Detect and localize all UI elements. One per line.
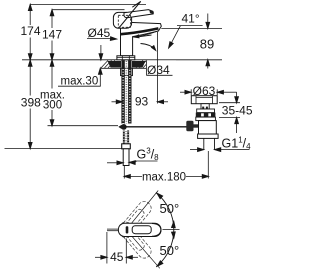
dim 398 line [29, 60, 31, 96]
cartridge dashed square [118, 15, 130, 27]
svg-text:89: 89 [200, 37, 214, 52]
max180 extension right [207, 151, 209, 179]
deck reference long line [22, 59, 222, 61]
svg-text:174: 174 [20, 24, 40, 38]
drain flange [191, 96, 217, 104]
flow arc under spout [141, 44, 155, 50]
lever tip dark [149, 10, 153, 14]
svg-text:50°: 50° [160, 201, 180, 216]
shank nut below deck [121, 68, 133, 75]
arrows at deck line [28, 54, 32, 60]
dim 147 line [51, 10, 53, 28]
handle centerline [163, 228, 180, 230]
O63 dim [180, 91, 186, 93]
tailpiece nut [198, 134, 219, 138]
spout outlet extension line [161, 27, 222, 29]
svg-text:50°: 50° [160, 243, 180, 258]
threaded shank dark columns [121, 60, 124, 123]
drain clevis knob [186, 121, 193, 132]
diagonal centerlines [124, 191, 158, 233]
handle detail stub [107, 228, 119, 230]
dim 174 line [29, 5, 31, 26]
deck seal dark left [108, 61, 122, 68]
G3/8 underline [134, 160, 157, 162]
swing arc [156, 193, 174, 267]
G3/8 arrows [107, 162, 119, 164]
O45 underline and arrow [87, 38, 113, 40]
svg-text:93: 93 [135, 95, 149, 109]
dim 93 [112, 101, 119, 103]
max30 label arrows [100, 45, 102, 56]
drain washer [196, 117, 216, 121]
tailpiece upper [199, 121, 217, 134]
svg-text:45: 45 [110, 250, 124, 264]
drain collar [197, 109, 215, 113]
svg-text:300: 300 [43, 100, 62, 112]
41 deg underline [177, 25, 203, 27]
handle main [118, 223, 161, 236]
41 degree leader [170, 26, 181, 46]
deck slab hatch [101, 60, 147, 68]
ext line at spout tip down [157, 32, 159, 104]
svg-text:max.180: max.180 [142, 171, 186, 183]
faucet body and spout [121, 22, 162, 56]
lever loop ring [113, 12, 131, 28]
raised lever tip flag [132, 1, 140, 7]
hose rod reference line A [48, 125, 119, 127]
ghost handle upper [116, 199, 154, 240]
dim 147 extension line [52, 9, 125, 11]
base plate [117, 56, 135, 60]
svg-text:35-45: 35-45 [222, 103, 253, 117]
svg-text:41°: 41° [182, 12, 200, 26]
svg-text:Ø34: Ø34 [147, 63, 170, 77]
svg-text:147: 147 [42, 28, 62, 42]
lever bar [124, 10, 153, 18]
O34 label box [146, 60, 176, 74]
svg-text:G3/8: G3/8 [137, 147, 160, 163]
svg-text:max.30: max.30 [61, 76, 99, 88]
lower threaded tube [123, 130, 125, 143]
svg-text:398: 398 [21, 96, 41, 110]
dim arrows 174/147 tops [28, 5, 32, 11]
spout inner arrow [140, 35, 152, 37]
drain neck [201, 104, 209, 109]
hose tube with G3/8 [123, 149, 129, 166]
svg-text:Ø45: Ø45 [88, 26, 111, 40]
tailpiece tube walls [203, 138, 205, 149]
max180 extension left [123, 166, 125, 179]
arrows bottoms 398 / max300 [28, 143, 32, 149]
svg-text:Ø63: Ø63 [193, 84, 216, 98]
spout inner line [136, 31, 159, 37]
dim 35-45 [236, 92, 238, 98]
dim max300 line [51, 60, 53, 89]
dim 45 [106, 232, 108, 264]
rod junction knob [121, 124, 127, 130]
G1 1/4 underline + leader [237, 148, 250, 150]
raised lever diagonal [119, 1, 140, 27]
hose nut [122, 144, 131, 149]
deck bottom line [101, 67, 146, 69]
max30 underline [58, 85, 101, 87]
deck seal dark right [132, 61, 146, 68]
max180 dim line [124, 175, 142, 177]
drain locknut dark [196, 113, 216, 118]
dim 89 [207, 14, 209, 25]
svg-text:G11/4: G11/4 [222, 136, 252, 152]
pop-up rod [124, 126, 191, 128]
ghost handle lower [116, 220, 154, 261]
dim 174 extension line top [30, 4, 146, 6]
hose bottom reference line B [5, 148, 122, 150]
